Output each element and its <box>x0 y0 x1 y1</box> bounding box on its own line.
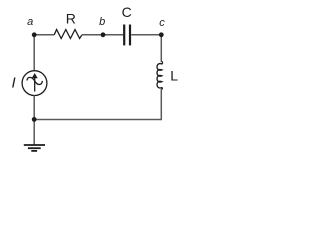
junction dot at ground <box>32 117 37 122</box>
svg-text:R: R <box>66 10 76 26</box>
svg-text:L: L <box>170 68 178 84</box>
wire: resistor to capacitor (through node b) <box>82 34 123 36</box>
inductor L <box>157 61 163 90</box>
node b (dot) <box>101 32 106 37</box>
wire: top-left lead from node a to resistor <box>34 34 54 36</box>
current source arrow <box>32 73 38 92</box>
current source sine squiggle <box>27 77 43 84</box>
resistor R <box>54 30 82 39</box>
node c (dot) <box>159 32 164 37</box>
svg-text:a: a <box>27 16 33 28</box>
wire: inductor to bottom-right corner <box>160 89 162 120</box>
ground <box>24 145 45 151</box>
wire: capacitor to node c <box>131 34 161 36</box>
svg-text:C: C <box>122 4 132 20</box>
wire: node c down to inductor <box>160 35 162 62</box>
capacitor C <box>124 25 130 46</box>
wire: left vertical from node a to current source <box>33 35 35 71</box>
svg-text:b: b <box>99 16 105 28</box>
current source I (circle) <box>22 71 47 96</box>
svg-text:I: I <box>12 75 16 92</box>
wire: bottom horizontal <box>34 119 161 121</box>
wire: current source to bottom junction <box>33 96 35 120</box>
svg-text:c: c <box>159 17 165 29</box>
wire: ground stem <box>33 120 35 145</box>
node a (dot) <box>32 32 37 37</box>
